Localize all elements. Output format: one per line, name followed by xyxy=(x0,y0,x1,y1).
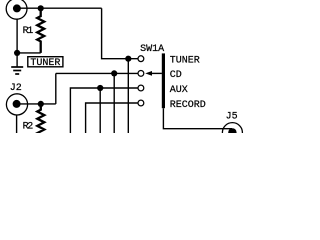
switch SW1A contact pin 2 xyxy=(138,71,144,77)
resistor R2 xyxy=(37,104,44,135)
wire bar to J5 xyxy=(163,108,232,129)
svg-text:RECORD: RECORD xyxy=(170,100,206,111)
wire J1 shield down to ground xyxy=(16,19,18,67)
node J5 center dot xyxy=(228,128,236,136)
connector J2 xyxy=(6,94,27,115)
wire descender from row 1 xyxy=(127,59,129,134)
resistor R1 xyxy=(37,8,44,53)
junction dot R2 top xyxy=(38,101,44,107)
wire wiper to bar xyxy=(152,72,162,74)
svg-text:TUNER: TUNER xyxy=(170,55,200,66)
wire R1 bottom to ground node xyxy=(17,52,41,54)
wire J2 to corner xyxy=(17,103,56,105)
svg-text:R1: R1 xyxy=(23,26,34,37)
connector J5 xyxy=(222,123,242,143)
junction dot ground node xyxy=(14,50,20,56)
svg-text:J2: J2 xyxy=(10,83,22,94)
svg-text:AUX: AUX xyxy=(170,85,188,96)
switch SW1A contact pin 1 xyxy=(138,56,144,62)
connector J1 xyxy=(6,0,27,19)
wire SW1A row 3 AUX xyxy=(70,88,137,134)
wire SW1A row 2 CD xyxy=(56,72,138,74)
wire J2 up to SW1A pin 2 row xyxy=(55,73,57,104)
label box TUNER xyxy=(28,57,63,67)
wire J2 shield down xyxy=(16,115,18,134)
svg-text:SW1A: SW1A xyxy=(140,44,164,55)
ground xyxy=(11,67,23,74)
node J2 center dot xyxy=(13,100,21,108)
wire SW1A row 4 RECORD xyxy=(86,103,138,134)
junction dot R1 top xyxy=(38,5,44,11)
wire descender from row 2 xyxy=(113,73,115,133)
svg-text:CD: CD xyxy=(170,70,182,81)
wire descender from row 3 xyxy=(99,88,101,134)
switch SW1A common bar xyxy=(162,53,165,108)
svg-text:R2: R2 xyxy=(23,122,34,133)
node J1 center dot xyxy=(13,4,21,12)
svg-text:J5: J5 xyxy=(226,112,238,123)
switch SW1A contact pin 4 xyxy=(138,100,144,106)
junction dot row 2 xyxy=(111,70,117,76)
junction dot row 1 xyxy=(125,56,131,62)
svg-text:TUNER: TUNER xyxy=(30,58,60,69)
switch SW1A wiper arrow xyxy=(145,71,152,76)
wire corner down to SW1A pin 1 row xyxy=(102,8,138,59)
switch SW1A contact pin 3 xyxy=(138,85,144,91)
wire J1 to top corner xyxy=(17,7,102,9)
junction dot row 3 xyxy=(97,85,103,91)
